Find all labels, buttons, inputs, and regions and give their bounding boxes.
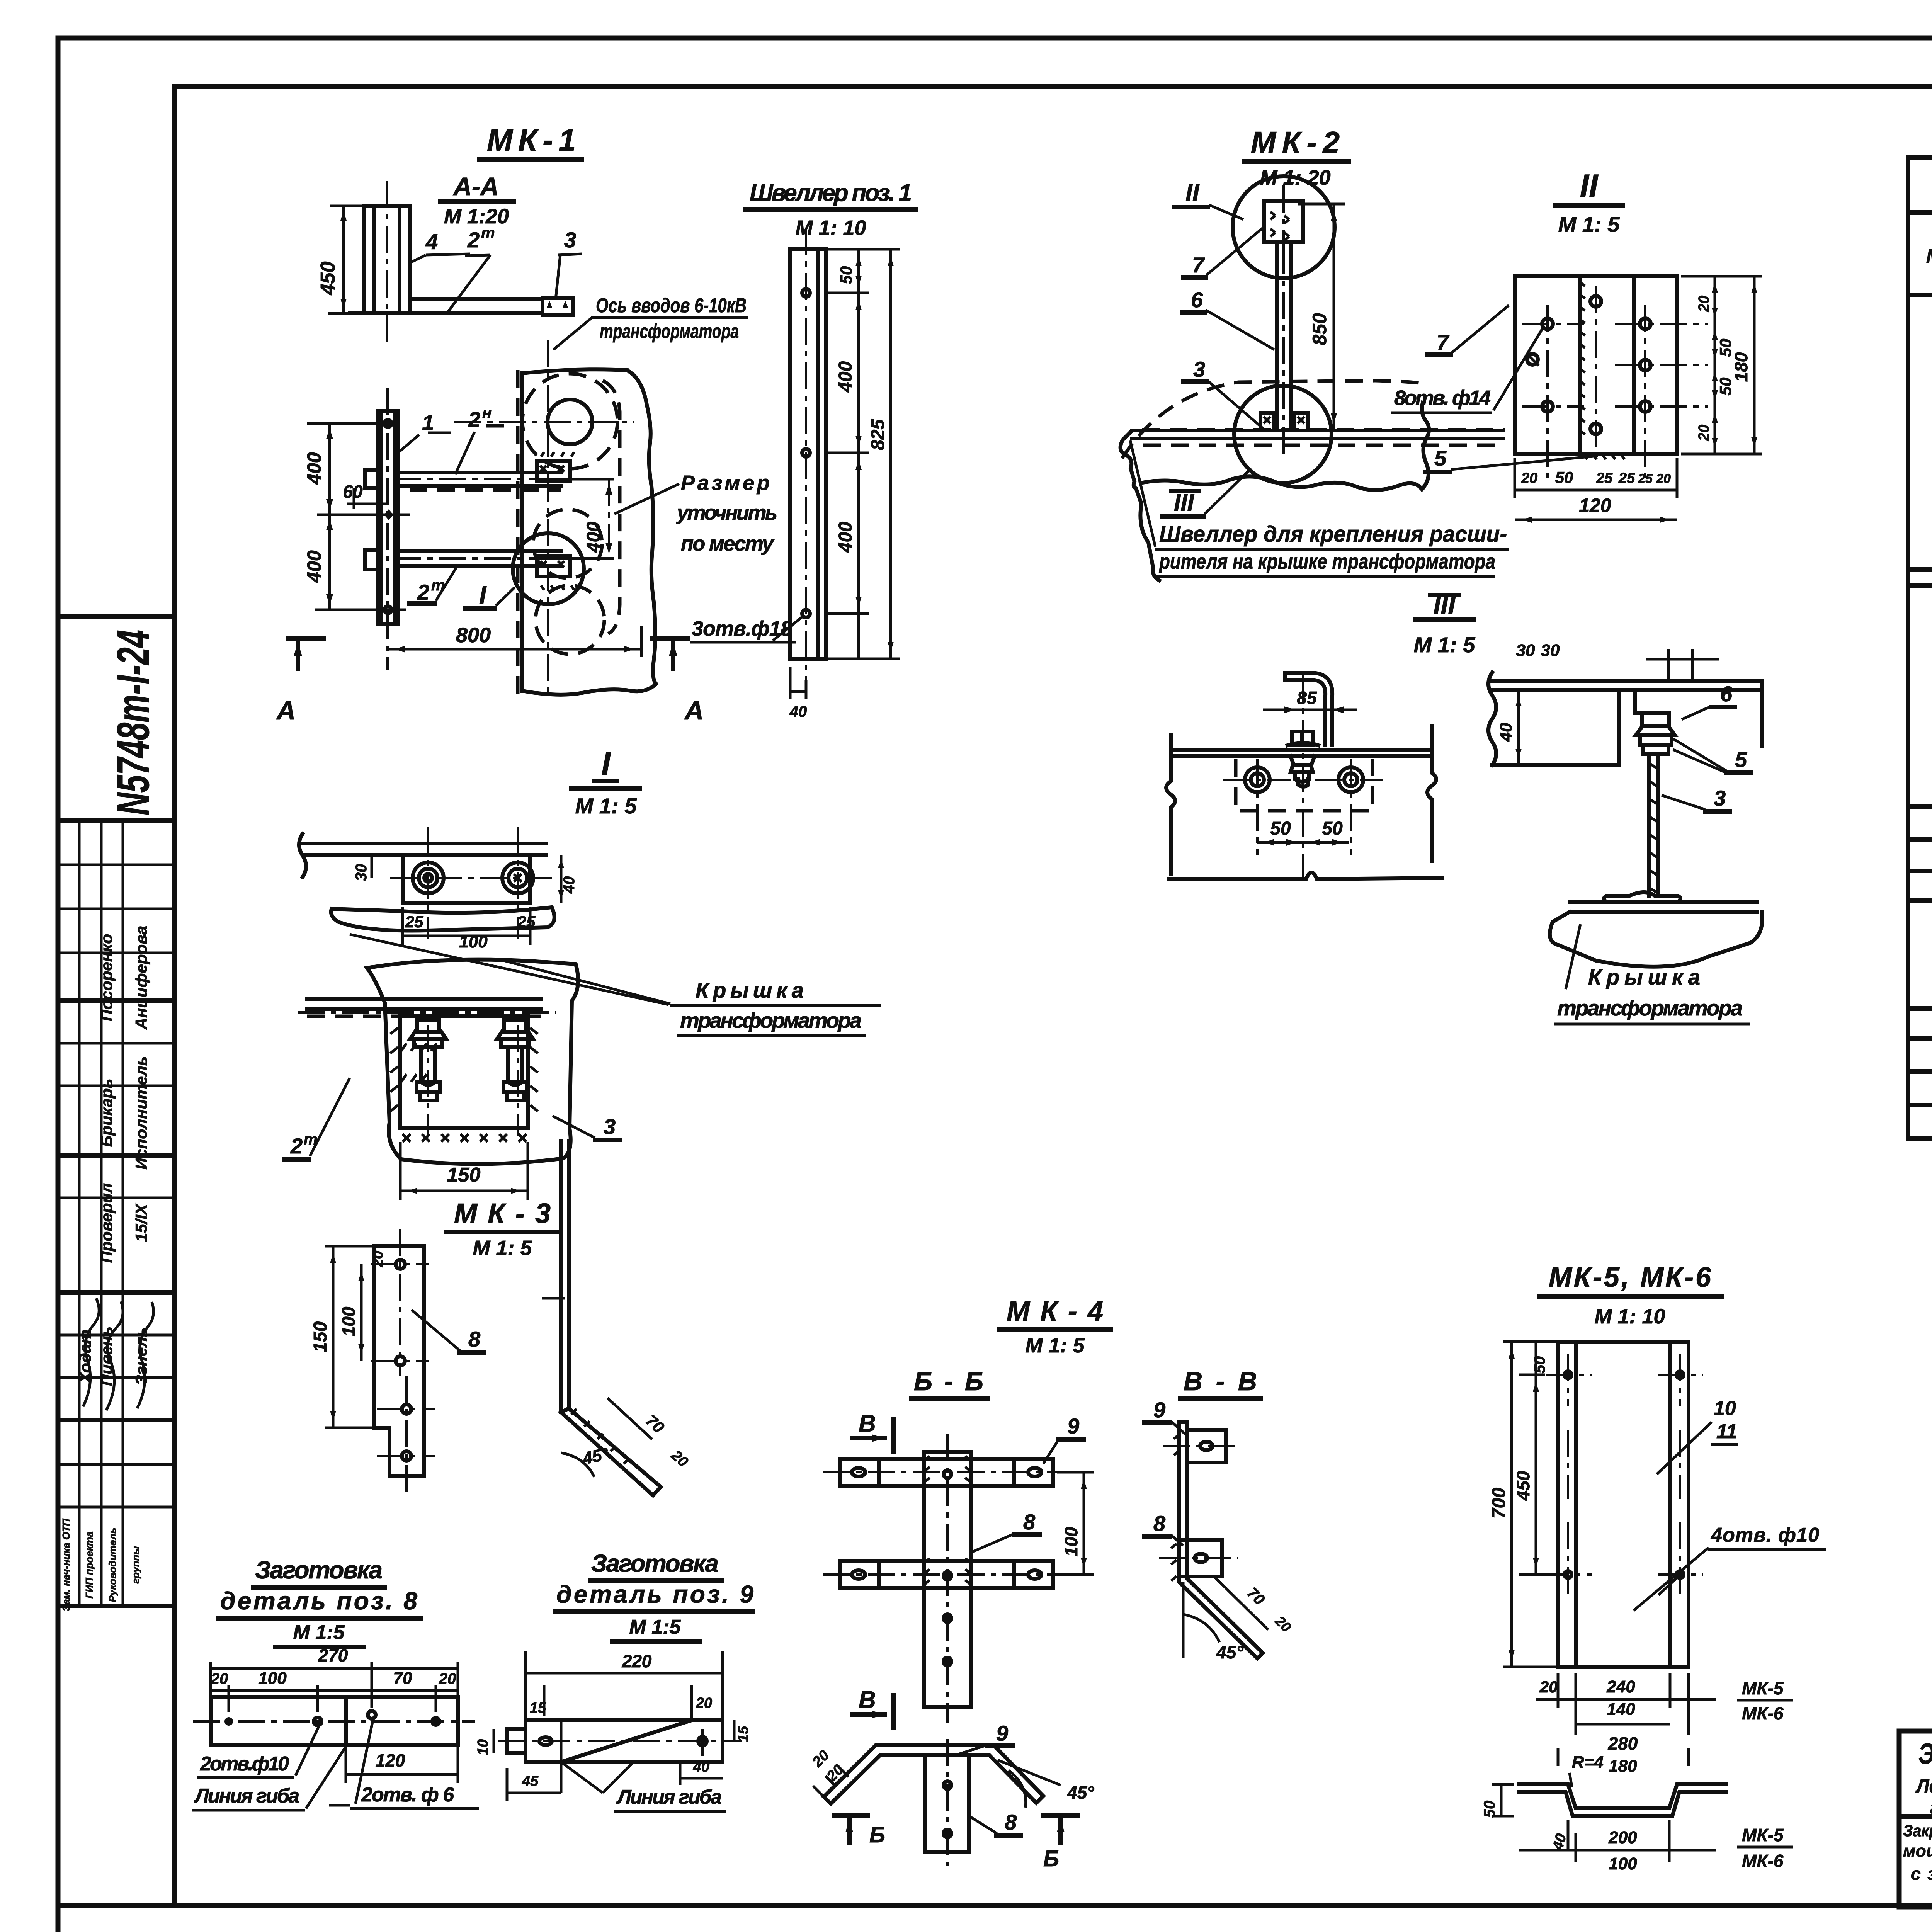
svg-text:2отв. ф 6: 2отв. ф 6 [361, 1784, 454, 1806]
svg-text:200: 200 [1608, 1828, 1637, 1847]
horizontal strap row 1 [840, 1459, 1053, 1486]
svg-text:100: 100 [459, 932, 488, 951]
bottom dim chain 20 50 25 25 25 20 and 120 [1514, 458, 1516, 498]
MK-1 block [1908, 295, 1932, 570]
svg-text:II: II [1185, 179, 1200, 206]
svg-text:Заготовка: Заготовка [591, 1549, 719, 1577]
top plate pads [1187, 1430, 1226, 1463]
dim chain above: 20 100 (70 20) and total 270 [209, 1662, 212, 1697]
svg-text:8: 8 [1153, 1511, 1166, 1536]
plan dims left [307, 422, 384, 425]
dashed inner right line [603, 381, 620, 634]
svg-text:Ось вводов 6-10кВ: Ось вводов 6-10кВ [596, 294, 747, 317]
svg-text:280: 280 [1608, 1733, 1638, 1753]
svg-text:180: 180 [1609, 1757, 1637, 1776]
bolts pair [410, 1020, 446, 1100]
svg-text:трансформатора: трансформатора [680, 1008, 862, 1032]
clamp plate hatched [400, 1016, 528, 1128]
dim 30 rotated left, 40 right [371, 855, 373, 878]
dims 70 20 along diagonal [607, 1398, 652, 1439]
svg-text:50: 50 [1555, 468, 1573, 486]
clamp detail lower in circle I [513, 533, 584, 604]
Z bent bracket pos.7 [1285, 680, 1325, 745]
svg-text:150: 150 [447, 1164, 481, 1186]
svg-text:1: 1 [422, 410, 434, 435]
svg-text:2: 2 [290, 1134, 303, 1158]
svg-text:М 1: 5: М 1: 5 [1025, 1334, 1085, 1357]
roof torn right edge [1422, 403, 1429, 489]
weld x marks [403, 1134, 526, 1142]
svg-text:25: 25 [1638, 471, 1653, 486]
figure MK-5 MK-6 [1489, 1262, 1826, 1776]
expander dashed arc [1122, 381, 1419, 458]
figure I-beam on transformer cover (right section of III) [1488, 641, 1762, 1024]
svg-text:9: 9 [996, 1721, 1008, 1745]
svg-text:Линия гиба: Линия гиба [616, 1786, 722, 1808]
plate 7 with channel flange [1515, 276, 1677, 454]
bottom dim 40 [789, 667, 792, 699]
svg-text:10: 10 [1714, 1397, 1736, 1420]
dim 700 left [1503, 1340, 1558, 1343]
svg-text:20: 20 [211, 1670, 228, 1687]
svg-text:3: 3 [564, 228, 576, 252]
figure bent angle 2t side (below MK-3 area) [542, 1141, 691, 1495]
lower clamp pads [1260, 413, 1274, 430]
centerlines [1522, 323, 1584, 325]
lower view [298, 960, 578, 1164]
svg-text:45°: 45° [1067, 1782, 1094, 1803]
svg-text:А: А [276, 696, 296, 725]
svg-text:220: 220 [622, 1651, 652, 1671]
svg-text:М 1: 5: М 1: 5 [473, 1236, 532, 1260]
svg-text:9: 9 [1067, 1414, 1079, 1438]
svg-text:40: 40 [693, 1759, 709, 1775]
stamp signature grid [58, 864, 175, 866]
svg-text:Пивень: Пивень [97, 1327, 116, 1386]
svg-text:20: 20 [1539, 1678, 1558, 1696]
figure MK-2 general view [1121, 125, 1509, 580]
figure MK-1 [276, 123, 777, 725]
dashed bushing circle top with solid circle [522, 374, 617, 469]
svg-text:I: I [479, 580, 487, 609]
svg-text:30: 30 [1516, 641, 1535, 660]
figure blank detail pos.9 [475, 1549, 753, 1811]
MK-1 plan view [276, 294, 777, 725]
figure Shveller poz.1 [690, 180, 916, 720]
center stub with holes [925, 1755, 969, 1852]
vertical channel post pos.1 [378, 411, 398, 624]
dims 40 200 100 [1567, 1820, 1570, 1851]
svg-text:180: 180 [1731, 352, 1751, 382]
horizontal angle bar top [307, 997, 541, 1001]
clamp detail upper [537, 461, 570, 481]
svg-text:т: т [481, 224, 495, 241]
dims 25 100 25 [401, 907, 404, 945]
figure MK-3 [310, 1198, 558, 1492]
svg-text:Руководитель: Руководитель [107, 1528, 118, 1602]
svg-text:400: 400 [303, 550, 325, 583]
svg-text:2: 2 [468, 407, 480, 432]
clamp plate with two bolts [403, 855, 530, 903]
svg-text:Исполнитель: Исполнитель [132, 1056, 150, 1170]
svg-text:700: 700 [1489, 1488, 1509, 1519]
svg-text:50: 50 [1270, 818, 1291, 839]
section marks B [834, 1813, 867, 1818]
svg-text:группы: группы [130, 1546, 141, 1584]
left margin stamp strip [58, 616, 175, 1611]
A-A dim 450 [330, 205, 364, 207]
dims 150 100 20 [325, 1245, 374, 1248]
svg-text:85: 85 [1297, 688, 1317, 708]
A-A horizontal angle 2t [410, 297, 543, 301]
MK-6 row [1908, 1105, 1932, 1138]
svg-text:М 1: 5: М 1: 5 [1414, 633, 1476, 657]
svg-text:20: 20 [1696, 296, 1712, 312]
svg-text:Б: Б [869, 1822, 885, 1847]
45 deg arc and label [561, 1453, 594, 1477]
svg-text:20: 20 [696, 1695, 712, 1711]
svg-text:6: 6 [1720, 682, 1733, 706]
svg-text:Б: Б [1043, 1846, 1059, 1871]
svg-text:50: 50 [1531, 1356, 1548, 1374]
holes 8otv f14 [1542, 318, 1553, 329]
dim 220 above [524, 1651, 527, 1720]
svg-text:50: 50 [837, 266, 855, 284]
svg-text:140: 140 [1607, 1700, 1635, 1719]
svg-text:Зам. нач-ника ОТП: Зам. нач-ника ОТП [60, 1518, 72, 1611]
cut outline wavy [367, 960, 578, 1164]
svg-text:М 1: 5: М 1: 5 [1558, 212, 1620, 236]
svg-text:270: 270 [318, 1645, 348, 1665]
45 deg label right [1009, 1770, 1026, 1808]
svg-text:40: 40 [789, 703, 807, 720]
svg-text:20: 20 [370, 1251, 386, 1267]
figure MK-4 [809, 1296, 1111, 1871]
dim 40 left [1517, 690, 1520, 765]
bottom line with break [1169, 872, 1442, 879]
svg-text:25: 25 [1596, 470, 1613, 486]
svg-text:В-В: В-В [1184, 1367, 1257, 1396]
svg-text:3: 3 [1193, 357, 1205, 381]
svg-text:50: 50 [1322, 818, 1343, 839]
bent strip bottom: flat with 45 deg ends [809, 1721, 1094, 1871]
svg-text:30: 30 [1541, 641, 1560, 660]
cross-out triangle marks [561, 1762, 603, 1793]
vertical strip with bend [1179, 1422, 1263, 1658]
figure detail I M1:5 [284, 745, 881, 1200]
svg-text:Анциферова: Анциферова [132, 926, 150, 1030]
svg-text:Швеллер для крепления расши-: Швеллер для крепления расши- [1159, 522, 1507, 547]
A-A view channel post [317, 181, 582, 348]
svg-text:7: 7 [1437, 330, 1450, 354]
dashed box [1236, 759, 1372, 811]
svg-text:100: 100 [1061, 1527, 1081, 1556]
svg-text:трансформатора: трансформатора [600, 320, 739, 343]
svg-text:2отв.ф10: 2отв.ф10 [200, 1753, 289, 1775]
A-A end plate 3 [543, 298, 573, 315]
svg-text:70: 70 [393, 1669, 412, 1688]
svg-text:А: А [684, 696, 704, 725]
svg-text:400: 400 [835, 522, 856, 553]
svg-text:М 1:5: М 1:5 [629, 1616, 681, 1638]
dim 800 bottom [640, 626, 643, 657]
svg-text:рителя на крышке трансформатор: рителя на крышке трансформатора [1158, 549, 1495, 573]
svg-text:15: 15 [735, 1726, 752, 1742]
45 deg [1183, 1614, 1219, 1642]
svg-text:МК-4: МК-4 [1007, 1296, 1103, 1327]
svg-text:N5748m-I-24: N5748m-I-24 [108, 630, 159, 815]
right dim chain 20 50 50 20 + 180 [1681, 275, 1762, 278]
channel pos.1 front [790, 249, 826, 659]
MK-3 row [1908, 839, 1932, 871]
weld hatch bottom [1583, 454, 1624, 459]
svg-text:850: 850 [1309, 313, 1330, 345]
svg-text:100: 100 [258, 1669, 287, 1688]
dims [543, 1685, 546, 1716]
svg-text:450: 450 [317, 262, 339, 296]
svg-text:4: 4 [425, 230, 438, 254]
plate with tab [526, 1720, 723, 1762]
svg-text:III: III [1174, 490, 1194, 516]
svg-text:3: 3 [604, 1114, 616, 1139]
header band [1908, 213, 1932, 295]
plate [1558, 1342, 1689, 1667]
svg-text:Швеллер поз. 1: Швеллер поз. 1 [750, 180, 912, 206]
inner frame bottom [58, 1903, 1932, 1908]
dim chain right [826, 292, 869, 294]
svg-text:Проверил: Проверил [97, 1183, 116, 1263]
top view: angle strip on cover [303, 842, 546, 845]
cover wavy edge below [331, 907, 554, 931]
dim 850 [1298, 203, 1345, 206]
MK-5 row [1908, 1038, 1932, 1071]
svg-text:Марка: Марка [1926, 245, 1932, 267]
svg-text:40: 40 [1497, 723, 1515, 742]
dim 450 and 50 [1519, 1374, 1545, 1376]
bend line [344, 1697, 348, 1745]
svg-text:уточнить: уточнить [676, 501, 777, 524]
svg-text:МК-6: МК-6 [1742, 1851, 1784, 1871]
svg-text:450: 450 [1513, 1471, 1533, 1501]
table outer and header [1908, 158, 1932, 213]
bottom flange on cover [1604, 892, 1680, 902]
specification table [1908, 158, 1932, 1138]
svg-text:825: 825 [868, 419, 888, 450]
dim 120 below [345, 1745, 347, 1783]
svg-text:М 1:5: М 1:5 [293, 1621, 345, 1644]
svg-text:М 1: 10: М 1: 10 [1594, 1305, 1665, 1328]
svg-text:40: 40 [561, 876, 578, 894]
svg-text:R=4: R=4 [1572, 1753, 1604, 1772]
svg-text:трансформатора: трансформатора [1557, 996, 1743, 1020]
caption Kryshka transformatora [1566, 924, 1580, 989]
left stubs [365, 470, 378, 488]
hex bolt on plate [1292, 731, 1313, 745]
svg-text:8: 8 [1023, 1510, 1036, 1534]
I-beam web [1647, 754, 1651, 896]
svg-text:М 1: 5: М 1: 5 [575, 794, 637, 818]
diagonal cut line and bend [561, 1720, 692, 1762]
svg-text:5: 5 [1434, 446, 1447, 470]
figure detail III M1:5 [1166, 590, 1475, 879]
svg-text:50: 50 [1481, 1801, 1498, 1818]
cover wavy outline [1550, 912, 1762, 967]
svg-text:10: 10 [475, 1739, 491, 1755]
horizontal angles 2n 2t [398, 471, 561, 474]
svg-text:ГИП проекта: ГИП проекта [83, 1531, 95, 1598]
svg-text:М 1:20: М 1:20 [444, 205, 509, 228]
svg-text:45: 45 [522, 1773, 539, 1789]
roof torn left edge [1121, 431, 1159, 580]
svg-text:150: 150 [310, 1321, 331, 1352]
dims 70 20 on diagonal [1214, 1577, 1268, 1630]
svg-text:мощностью до 1х6(2х63)МВа: мощностью до 1х6(2х63)МВа [1903, 1842, 1932, 1861]
svg-text:11: 11 [1716, 1420, 1737, 1443]
svg-text:20: 20 [1656, 471, 1671, 486]
dim 400 range (size to clarify) [553, 478, 614, 481]
svg-text:240: 240 [1606, 1677, 1635, 1696]
roof plate strip [1173, 748, 1432, 752]
figure detail II M1:5 [1391, 168, 1762, 523]
svg-text:МК-2: МК-2 [1251, 125, 1340, 159]
svg-text:ЭНЕРГОСЕТЬПРОЕКТ: ЭНЕРГОСЕТЬПРОЕКТ [1918, 1738, 1932, 1770]
MK-4 block [1908, 901, 1932, 1009]
svg-text:А-А: А-А [452, 172, 498, 201]
top channel edge [1492, 679, 1762, 683]
svg-text:МК-5: МК-5 [1742, 1678, 1784, 1698]
dim 150 [399, 1142, 402, 1200]
nut stack under plate [1291, 756, 1315, 782]
svg-text:н: н [482, 405, 492, 422]
bottom dims [1557, 1673, 1560, 1708]
svg-text:100: 100 [1609, 1854, 1637, 1873]
svg-text:100: 100 [338, 1306, 359, 1336]
svg-text:МК-3: МК-3 [454, 1198, 551, 1229]
svg-text:В: В [859, 1687, 876, 1713]
title block [1899, 1731, 1932, 1907]
transformer roof outline [1132, 429, 1503, 432]
svg-text:45°: 45° [1216, 1642, 1243, 1662]
MK-2 block [1908, 585, 1932, 806]
roof torn bottom edge [1141, 476, 1422, 490]
svg-text:15/IX: 15/IX [132, 1203, 150, 1242]
dim 50 left [1492, 1783, 1514, 1786]
svg-text:МК-1: МК-1 [487, 123, 576, 157]
svg-text:30: 30 [353, 864, 370, 881]
svg-text:деталь поз. 9: деталь поз. 9 [556, 1580, 753, 1608]
svg-text:Б-Б: Б-Б [914, 1367, 983, 1396]
svg-text:г. Ленинград, 1971г.: г. Ленинград, 1971г. [1930, 1796, 1932, 1819]
svg-text:Линия гиба: Линия гиба [194, 1785, 299, 1807]
svg-text:20: 20 [1521, 470, 1537, 486]
horizontal strap row 2 [840, 1561, 1053, 1588]
svg-text:9: 9 [1153, 1398, 1165, 1422]
svg-text:Ленинградское отделение: Ленинградское отделение [1915, 1775, 1932, 1798]
plate with holes [374, 1246, 424, 1476]
svg-text:120: 120 [376, 1750, 405, 1770]
dashed circles lower [533, 509, 602, 578]
figure V-V section [1145, 1367, 1294, 1662]
svg-text:по месту: по месту [681, 532, 775, 555]
svg-text:Брикарь: Брикарь [97, 1079, 116, 1147]
svg-text:25: 25 [405, 913, 423, 931]
svg-text:25: 25 [1618, 470, 1635, 486]
transformer tank outline [520, 372, 524, 691]
svg-text:МК-5: МК-5 [1742, 1825, 1784, 1845]
svg-text:II: II [1580, 168, 1599, 204]
svg-text:25: 25 [517, 913, 536, 931]
left and right edge verticals with breaks [1166, 735, 1175, 874]
svg-text:деталь поз. 8: деталь поз. 8 [220, 1587, 417, 1615]
svg-text:20: 20 [439, 1670, 456, 1687]
leader: Os vvodov [553, 318, 592, 350]
cross assembly: vertical bar 8 [924, 1452, 971, 1707]
svg-text:Заготовка: Заготовка [255, 1556, 383, 1584]
projected bolt circles [1245, 767, 1270, 792]
svg-text:2: 2 [467, 228, 480, 252]
svg-text:3: 3 [1714, 786, 1726, 810]
expander channel 6 [1275, 242, 1279, 430]
svg-text:400: 400 [835, 361, 856, 393]
svg-text:2: 2 [417, 580, 429, 604]
svg-text:5: 5 [1735, 747, 1747, 772]
transformer centre axis [547, 340, 549, 699]
svg-text:I: I [601, 745, 611, 782]
svg-text:400: 400 [303, 452, 325, 485]
top plate 7 [1264, 201, 1303, 242]
svg-text:Закрытые подстанции 110/6-10кВ: Закрытые подстанции 110/6-10кВ [1903, 1821, 1932, 1840]
svg-text:7: 7 [1192, 253, 1205, 277]
svg-text:8: 8 [468, 1327, 481, 1351]
svg-text:400: 400 [583, 522, 604, 553]
svg-text:МК-6: МК-6 [1742, 1703, 1784, 1723]
svg-text:6: 6 [1191, 287, 1203, 312]
svg-text:4отв. ф10: 4отв. ф10 [1711, 1524, 1819, 1546]
svg-text:с закрытой установкой: с закрытой установкой [1911, 1864, 1932, 1884]
detail circle II [1233, 176, 1335, 278]
dim 100 [1057, 1471, 1094, 1474]
MK-5/6 profile section [1481, 1753, 1793, 1873]
dims 30 30 top [1667, 649, 1670, 681]
svg-text:8: 8 [1005, 1810, 1017, 1834]
holes [1565, 1371, 1571, 1378]
svg-text:120: 120 [1579, 495, 1611, 516]
svg-text:15: 15 [530, 1700, 546, 1716]
plate [211, 1697, 458, 1745]
figure blank detail pos.8 [192, 1556, 479, 1810]
svg-text:800: 800 [456, 624, 491, 647]
detail circle III [1234, 386, 1332, 483]
section arrows A-A [288, 636, 324, 641]
svg-text:Посоренко: Посоренко [97, 934, 116, 1021]
svg-text:В: В [859, 1410, 876, 1437]
svg-text:20: 20 [1696, 425, 1712, 441]
angle clamp and bolts [1635, 690, 1666, 713]
leader: razmer utochnit [614, 484, 679, 514]
svg-text:8отв. ф14: 8отв. ф14 [1394, 386, 1491, 410]
